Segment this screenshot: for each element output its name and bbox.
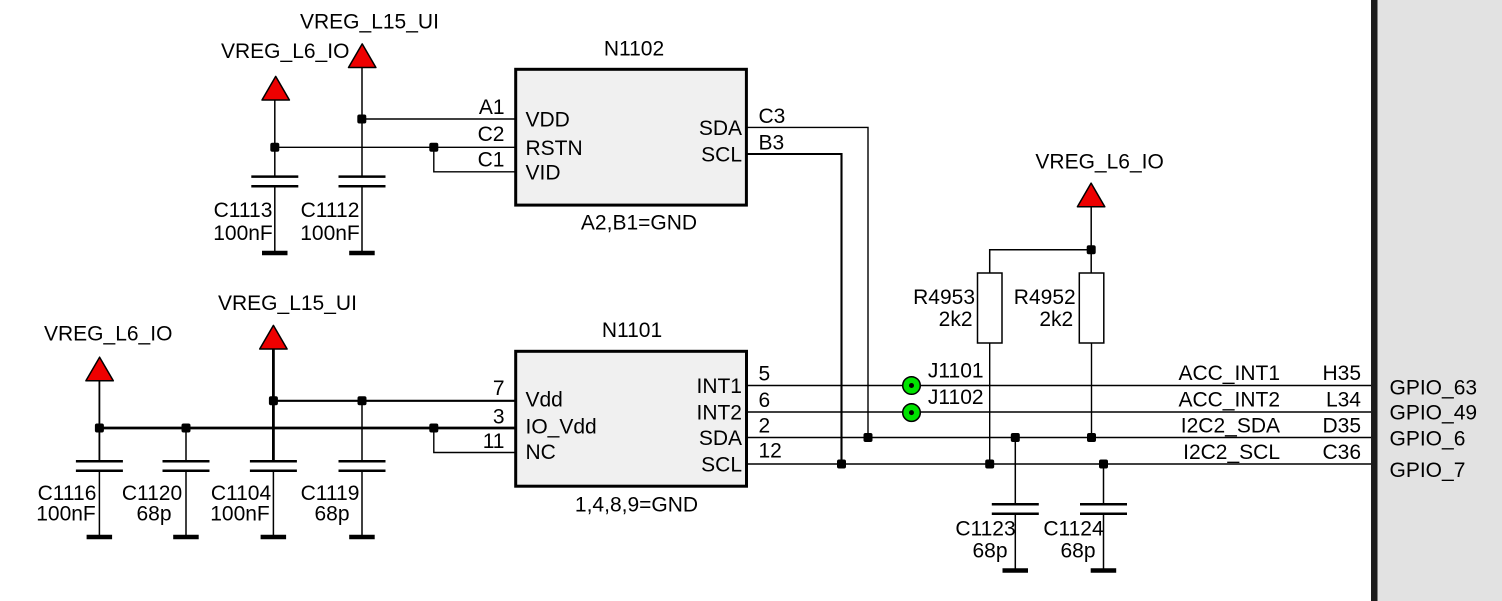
svg-text:VID: VID bbox=[526, 161, 561, 184]
capacitor C1124 bbox=[1043, 504, 1127, 568]
svg-text:GPIO_63: GPIO_63 bbox=[1390, 376, 1478, 399]
node SCL junction from N1102 bbox=[837, 460, 846, 469]
svg-text:2: 2 bbox=[759, 415, 771, 438]
capacitor C1116 bbox=[36, 461, 123, 535]
ground C1104 bbox=[261, 535, 287, 540]
svg-text:C1113: C1113 bbox=[214, 199, 273, 222]
power symbol VREG_L6_IO (right) bbox=[1035, 151, 1163, 207]
wire ACC_INT2 net bbox=[746, 411, 1371, 413]
node SDA junction from N1102 bbox=[864, 433, 873, 442]
wire I2C2_SCL net bbox=[746, 463, 1371, 465]
connector panel bar bbox=[1371, 0, 1378, 601]
svg-text:J1101: J1101 bbox=[928, 359, 984, 382]
svg-text:INT1: INT1 bbox=[696, 375, 742, 398]
resistor R4953 bbox=[913, 273, 1002, 343]
svg-text:100nF: 100nF bbox=[213, 222, 273, 245]
svg-text:J1102: J1102 bbox=[928, 386, 984, 409]
svg-text:2k2: 2k2 bbox=[1039, 308, 1073, 331]
wire net Vdd (pin 7) bbox=[273, 400, 516, 402]
svg-text:A2,B1=GND: A2,B1=GND bbox=[581, 212, 697, 235]
wire VREG_L6_IO bottom down bbox=[98, 381, 100, 460]
capacitor C1112 bbox=[300, 177, 385, 251]
IC N1102 bbox=[516, 38, 747, 235]
node IO_Vdd junction at C1116 bbox=[95, 424, 104, 433]
node C1124 junction bbox=[1099, 460, 1108, 469]
svg-text:I2C2_SDA: I2C2_SDA bbox=[1181, 415, 1280, 438]
svg-text:VREG_L6_IO: VREG_L6_IO bbox=[221, 40, 349, 63]
node R4953-SCL junction bbox=[985, 460, 994, 469]
svg-text:100nF: 100nF bbox=[36, 503, 96, 526]
svg-text:12: 12 bbox=[759, 440, 782, 463]
svg-text:N1101: N1101 bbox=[602, 319, 662, 342]
wire C1123 stub bbox=[1014, 438, 1016, 504]
svg-text:2k2: 2k2 bbox=[939, 308, 973, 331]
wire to R4953 top bbox=[990, 250, 1091, 273]
svg-text:D35: D35 bbox=[1322, 415, 1361, 438]
svg-text:C3: C3 bbox=[759, 105, 786, 128]
svg-text:L34: L34 bbox=[1326, 389, 1361, 412]
power symbol VREG_L6_IO (top) bbox=[221, 40, 349, 100]
svg-text:I2C2_SCL: I2C2_SCL bbox=[1183, 441, 1280, 464]
capacitor C1119 bbox=[301, 461, 386, 535]
node RSTN junction right bbox=[429, 143, 438, 152]
svg-text:R4953: R4953 bbox=[913, 286, 975, 309]
wire I2C2_SDA net bbox=[746, 437, 1371, 439]
svg-text:C1123: C1123 bbox=[955, 518, 1015, 541]
wire net IO_Vdd (pin 3) bbox=[99, 427, 516, 430]
IC N1101 bbox=[516, 319, 747, 517]
node IO_Vdd junction at NC branch bbox=[429, 424, 438, 433]
svg-text:100nF: 100nF bbox=[210, 503, 270, 526]
svg-text:SCL: SCL bbox=[701, 144, 742, 167]
svg-text:Vdd: Vdd bbox=[526, 389, 563, 412]
node Vdd junction at VREG_L15_UI bbox=[269, 396, 278, 405]
power symbol VREG_L15_UI (bottom) bbox=[218, 292, 357, 349]
svg-text:SDA: SDA bbox=[699, 117, 742, 140]
wire C1120 stub bbox=[185, 428, 187, 461]
wire C1/VID branch bbox=[434, 147, 516, 172]
node C1123 junction bbox=[1011, 433, 1020, 442]
svg-text:C1: C1 bbox=[478, 148, 505, 171]
wire VREG_L6_IO down bbox=[274, 100, 276, 176]
svg-text:C36: C36 bbox=[1322, 441, 1361, 464]
ground C1120 bbox=[173, 535, 199, 540]
capacitor C1113 bbox=[213, 177, 298, 251]
svg-text:VREG_L6_IO: VREG_L6_IO bbox=[44, 323, 172, 346]
wire VREG_L15_UI bottom down bbox=[272, 349, 275, 460]
svg-text:A1: A1 bbox=[479, 96, 505, 119]
svg-text:VREG_L6_IO: VREG_L6_IO bbox=[1035, 151, 1163, 174]
svg-text:B3: B3 bbox=[759, 132, 785, 155]
svg-text:68p: 68p bbox=[972, 540, 1007, 563]
svg-text:6: 6 bbox=[759, 389, 771, 412]
svg-text:ACC_INT1: ACC_INT1 bbox=[1178, 362, 1280, 385]
svg-text:GPIO_49: GPIO_49 bbox=[1390, 402, 1478, 425]
ground C1116 bbox=[87, 535, 113, 540]
svg-text:H35: H35 bbox=[1322, 362, 1361, 385]
svg-text:VDD: VDD bbox=[526, 109, 570, 132]
svg-text:IO_Vdd: IO_Vdd bbox=[526, 416, 597, 439]
resistor R4952 bbox=[1014, 273, 1104, 343]
wire C1119 stub bbox=[361, 401, 363, 460]
svg-text:C1124: C1124 bbox=[1043, 518, 1104, 541]
node IO_Vdd junction at C1120 bbox=[182, 424, 191, 433]
wire VREG_L15_UI down bbox=[361, 68, 363, 176]
svg-text:5: 5 bbox=[759, 363, 771, 386]
svg-text:C1112: C1112 bbox=[301, 199, 360, 222]
svg-text:7: 7 bbox=[493, 377, 505, 400]
node A1 junction bbox=[357, 115, 366, 124]
svg-text:VREG_L15_UI: VREG_L15_UI bbox=[300, 11, 439, 34]
node Vdd junction at C1119 bbox=[358, 396, 367, 405]
wire C1124 stub bbox=[1103, 464, 1105, 503]
svg-text:68p: 68p bbox=[136, 503, 171, 526]
svg-text:SCL: SCL bbox=[701, 454, 742, 477]
svg-text:SDA: SDA bbox=[699, 427, 742, 450]
svg-text:VREG_L15_UI: VREG_L15_UI bbox=[218, 292, 357, 315]
test point J1101 bbox=[903, 359, 984, 394]
svg-text:68p: 68p bbox=[1060, 540, 1095, 563]
power symbol VREG_L15_UI (top) bbox=[300, 11, 439, 68]
svg-text:NC: NC bbox=[526, 441, 556, 464]
wire R4952 bottom to SDA bbox=[1091, 343, 1093, 438]
connector panel body bbox=[1378, 0, 1502, 601]
svg-text:GPIO_6: GPIO_6 bbox=[1390, 428, 1466, 451]
svg-text:GPIO_7: GPIO_7 bbox=[1390, 459, 1466, 482]
svg-text:R4952: R4952 bbox=[1014, 286, 1076, 309]
capacitor C1120 bbox=[122, 461, 210, 535]
svg-text:68p: 68p bbox=[314, 503, 349, 526]
wire C2/RSTN bbox=[274, 146, 516, 148]
ground C1113 bbox=[262, 251, 288, 256]
wire A1/VDD bbox=[362, 118, 516, 120]
svg-text:11: 11 bbox=[483, 430, 505, 453]
node R4952-SDA junction bbox=[1087, 433, 1096, 442]
ground C1112 bbox=[349, 251, 375, 256]
capacitor C1123 bbox=[955, 504, 1038, 568]
wire VREG_L6_IO right down bbox=[1090, 207, 1092, 273]
node pullup junction bbox=[1087, 245, 1096, 254]
wire ACC_INT1 net bbox=[746, 385, 1371, 387]
svg-text:INT2: INT2 bbox=[696, 402, 742, 425]
svg-text:N1102: N1102 bbox=[604, 38, 664, 61]
svg-text:ACC_INT2: ACC_INT2 bbox=[1178, 389, 1280, 412]
test point J1102 bbox=[903, 386, 984, 421]
ground C1124 bbox=[1091, 568, 1117, 573]
node RSTN junction left bbox=[270, 143, 279, 152]
wire R4953 bottom to SCL bbox=[989, 343, 991, 464]
ground C1119 bbox=[349, 535, 375, 540]
ground C1123 bbox=[1003, 568, 1029, 573]
wire NC branch (pin 11) bbox=[434, 428, 516, 453]
wire SCL B3 bbox=[746, 154, 842, 464]
capacitor C1104 bbox=[210, 461, 297, 535]
svg-text:100nF: 100nF bbox=[300, 222, 360, 245]
svg-text:1,4,8,9=GND: 1,4,8,9=GND bbox=[575, 494, 698, 517]
power symbol VREG_L6_IO (bottom) bbox=[44, 323, 172, 381]
svg-text:RSTN: RSTN bbox=[526, 137, 583, 160]
svg-text:3: 3 bbox=[493, 405, 505, 428]
wire SDA C3 bbox=[746, 127, 868, 437]
svg-text:C2: C2 bbox=[478, 123, 505, 146]
